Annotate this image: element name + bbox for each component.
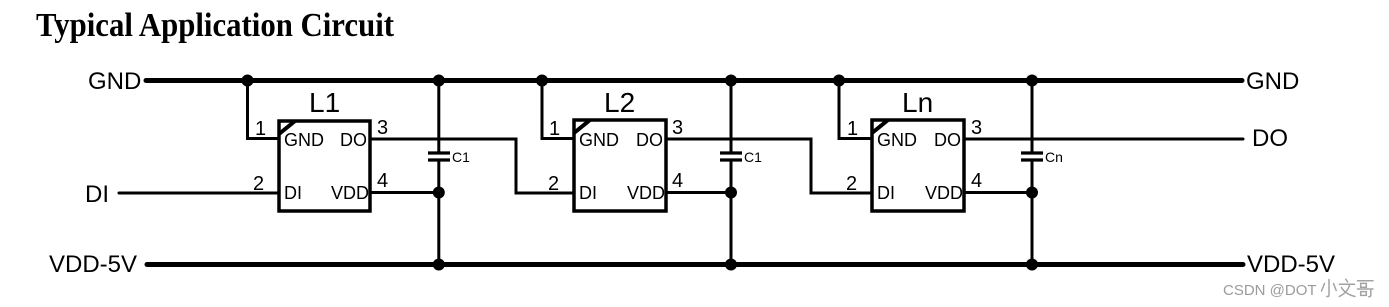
IC U3 (Ln) xyxy=(872,87,964,211)
wire Ln pin4 VDD xyxy=(964,170,1032,193)
svg-text:VDD: VDD xyxy=(627,183,665,203)
node L1 pin1 junction xyxy=(242,75,254,87)
wire L2 pin3 DO to Ln DI xyxy=(666,117,872,193)
node C1 top junction xyxy=(433,75,445,87)
node Ln pin4 junction xyxy=(1026,187,1038,199)
svg-text:4: 4 xyxy=(377,170,388,192)
capacitor Cn xyxy=(1021,81,1063,265)
node C1 bottom junction xyxy=(433,259,445,271)
svg-text:4: 4 xyxy=(971,170,982,192)
node C1b bottom junction xyxy=(725,259,737,271)
wire DI input xyxy=(119,192,279,195)
node Cn bottom junction xyxy=(1026,259,1038,271)
svg-text:L1: L1 xyxy=(309,87,340,118)
wire L1 pin4 VDD xyxy=(370,170,439,193)
node L1 pin4 junction xyxy=(433,187,445,199)
svg-text:4: 4 xyxy=(672,170,683,192)
svg-text:DO: DO xyxy=(934,130,961,150)
node L2 pin4 junction xyxy=(725,187,737,199)
wire GND rail xyxy=(146,78,1242,83)
svg-text:GND: GND xyxy=(1246,68,1299,95)
wire L2 pin4 VDD xyxy=(666,170,731,193)
svg-text:3: 3 xyxy=(971,117,982,139)
IC U2 (L2) xyxy=(574,87,666,211)
watermark CSDN xyxy=(1223,279,1373,299)
svg-text:VDD-5V: VDD-5V xyxy=(1247,251,1335,278)
svg-text:C1: C1 xyxy=(744,149,762,165)
svg-text:3: 3 xyxy=(672,117,683,139)
svg-text:GND: GND xyxy=(877,130,917,150)
svg-text:1: 1 xyxy=(847,118,858,140)
IC U1 (L1) xyxy=(279,87,370,211)
svg-text:2: 2 xyxy=(846,173,857,195)
node L2 pin1 junction xyxy=(536,75,548,87)
capacitor C1 (first) xyxy=(428,81,470,265)
wire L1 pin1 to GND rail xyxy=(248,81,280,141)
svg-text:DI: DI xyxy=(284,183,302,203)
svg-text:DO: DO xyxy=(1252,125,1288,152)
svg-text:GND: GND xyxy=(284,130,324,150)
svg-text:DI: DI xyxy=(877,183,895,203)
capacitor C1 (second) xyxy=(720,81,762,265)
svg-text:VDD: VDD xyxy=(331,183,369,203)
svg-text:1: 1 xyxy=(255,118,266,140)
svg-text:CSDN @DOT: CSDN @DOT xyxy=(1223,282,1317,299)
node Cn top junction xyxy=(1026,75,1038,87)
svg-text:3: 3 xyxy=(377,117,388,139)
svg-text:Ln: Ln xyxy=(902,87,933,118)
svg-text:VDD-5V: VDD-5V xyxy=(49,251,137,278)
node Ln pin1 junction xyxy=(833,75,845,87)
svg-text:DI: DI xyxy=(579,183,597,203)
svg-text:2: 2 xyxy=(253,173,264,195)
svg-text:1: 1 xyxy=(549,118,560,140)
wire Ln pin1 to GND rail xyxy=(839,81,872,141)
svg-text:DO: DO xyxy=(636,130,663,150)
svg-text:GND: GND xyxy=(579,130,619,150)
node C1b top junction xyxy=(725,75,737,87)
wire L1 pin3 DO to L2 DI xyxy=(370,117,574,193)
svg-text:Cn: Cn xyxy=(1045,149,1063,165)
svg-text:C1: C1 xyxy=(452,149,470,165)
wire VDD-5V rail xyxy=(147,262,1243,267)
svg-text:DO: DO xyxy=(340,130,367,150)
svg-text:GND: GND xyxy=(88,68,141,95)
svg-text:VDD: VDD xyxy=(925,183,963,203)
wire L2 pin1 to GND rail xyxy=(542,81,574,141)
svg-text:DI: DI xyxy=(85,181,109,208)
svg-text:Typical Application Circuit: Typical Application Circuit xyxy=(36,7,395,44)
svg-text:L2: L2 xyxy=(604,87,635,118)
svg-text:2: 2 xyxy=(548,173,559,195)
wire DO output xyxy=(964,138,1243,141)
